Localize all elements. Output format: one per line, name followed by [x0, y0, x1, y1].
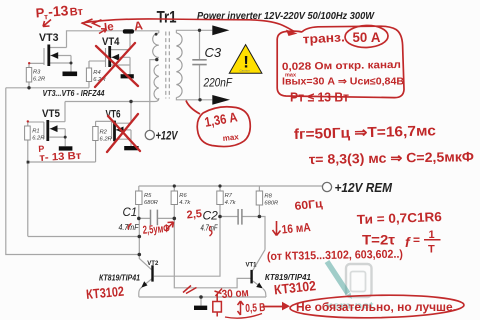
svg-text:VT6: VT6	[106, 108, 121, 120]
capacitor C2 (leads and plates)	[220, 209, 265, 250]
svg-text:C2: C2	[203, 209, 219, 223]
svg-text:4.7k: 4.7k	[179, 200, 191, 206]
svg-text:2,5: 2,5	[186, 208, 202, 222]
wire VT1 emitter to bottom rail	[253, 281, 266, 297]
transformer Tr1 secondary winding	[176, 33, 182, 98]
svg-text:КТ819/TIP41: КТ819/TIP41	[99, 273, 140, 282]
wire VT2 collector from C1 node	[139, 218, 151, 269]
node C1 right	[173, 217, 177, 221]
resistor R4 body	[86, 68, 91, 82]
red strike mark before 30 Om	[215, 289, 223, 297]
svg-text:16 мА: 16 мА	[281, 220, 311, 236]
svg-text:max: max	[285, 73, 297, 79]
wire gate bus R1-R2	[28, 161, 96, 163]
red blob 1.36A	[197, 107, 250, 147]
red arrow before Ie	[99, 29, 107, 34]
node h1 on VT2 collector	[138, 235, 142, 239]
capacitor C1 (leads and plates)	[139, 210, 175, 226]
red chevrons at left end of underline	[83, 19, 102, 28]
transistor VT6 channel bar	[113, 121, 116, 142]
red connector to blob	[186, 101, 200, 115]
wire VT1 collector from C2 node	[253, 250, 265, 271]
node C3 bottom	[198, 98, 201, 101]
wire left bus down to multivibrator	[6, 88, 140, 255]
svg-text:R1: R1	[32, 129, 39, 135]
svg-text:R5: R5	[144, 193, 152, 199]
svg-text:50 А: 50 А	[353, 29, 381, 45]
transistor VT6 (wires)	[96, 102, 131, 163]
node R6 top	[173, 184, 176, 187]
wire VT2 emitter to bottom rail	[139, 279, 152, 297]
red junction dot R1 gate	[27, 120, 29, 122]
svg-text:C1: C1	[123, 207, 138, 219]
resistor R5 leads	[138, 186, 140, 218]
svg-text:транз.: транз.	[302, 30, 345, 46]
node blob on top rail at VT4 drain	[123, 29, 134, 33]
transistor VT6 body-diode arrow	[116, 127, 124, 134]
red arrow into cloud	[263, 306, 283, 308]
red underline long stroke with right arrow	[82, 19, 295, 32]
svg-text:+12V: +12V	[156, 130, 179, 142]
output arrow bottom	[212, 95, 230, 105]
ground symbol bottom rail	[194, 306, 207, 310]
svg-text:=: =	[413, 233, 420, 247]
svg-text:VT1: VT1	[246, 262, 258, 268]
red slash at C1 value	[128, 224, 131, 230]
node ground on bottom rail	[199, 295, 203, 299]
wire top supply rail of multivibrator	[139, 185, 323, 187]
svg-text:Iвых=30 А ⇒ Uси≤0,84В: Iвых=30 А ⇒ Uси≤0,84В	[282, 77, 404, 88]
red cloud not necessary	[290, 294, 464, 319]
capacitor C3 (leads and plates)	[192, 30, 206, 100]
resistor R6 leads	[173, 186, 175, 218]
wire secondary top output	[176, 30, 212, 33]
transistor VT4 (wires)	[89, 31, 130, 88]
svg-text:R6: R6	[179, 193, 187, 199]
svg-text:0,5 В: 0,5 В	[245, 302, 266, 315]
watermark square icon	[346, 264, 372, 297]
red scribble left of ground	[183, 286, 197, 294]
svg-text:R7: R7	[225, 193, 233, 199]
transistor VT3 body-diode arrow	[51, 52, 59, 59]
svg-text:6.2R: 6.2R	[32, 135, 45, 141]
svg-text:(от КТ315...3102, 603,602..): (от КТ315...3102, 603,602..)	[267, 249, 403, 263]
transistor VT2 base bar	[151, 265, 153, 281]
wire secondary bottom output	[176, 98, 212, 100]
wire gate bus under VT3/VT4	[6, 87, 89, 89]
terminal +12V circle	[145, 130, 154, 139]
svg-text:R8: R8	[264, 194, 272, 200]
svg-text:Caution: Caution	[240, 69, 251, 73]
resistor R7 body	[217, 191, 223, 205]
wire center tap to +12V terminal	[150, 60, 157, 131]
watermark pencil	[327, 262, 352, 300]
ground bar VT3 source	[63, 72, 78, 77]
wire ground stub	[200, 297, 202, 306]
svg-text:VT5: VT5	[42, 108, 60, 120]
node R3 bottom on gate bus	[27, 86, 30, 89]
svg-text:VT3...VT6 - IRFZ44: VT3...VT6 - IRFZ44	[43, 89, 105, 98]
node h2 on VT2 collector	[138, 253, 142, 257]
svg-text:τ= 8,3(3) мс ⇒ С=2,5мкФ: τ= 8,3(3) мс ⇒ С=2,5мкФ	[309, 149, 475, 167]
red cross over VT4	[95, 43, 138, 87]
svg-text:C3: C3	[205, 45, 222, 60]
svg-text:R4: R4	[93, 70, 100, 76]
transistor VT1 base bar	[250, 270, 252, 284]
node R1 on gate bus2	[27, 161, 30, 164]
red slash at C2 value	[209, 226, 211, 236]
svg-text:6.2R: 6.2R	[100, 136, 113, 142]
ground bar VT6 source	[124, 146, 138, 150]
svg-text:VT3: VT3	[39, 32, 59, 44]
svg-text:680R: 680R	[264, 200, 279, 206]
svg-text:max: max	[222, 132, 239, 143]
svg-text:R2: R2	[100, 130, 108, 136]
svg-text:VT2: VT2	[147, 261, 159, 267]
output arrow top	[212, 25, 229, 35]
terminal +12V REM circle	[322, 182, 331, 191]
resistor R7 leads	[219, 186, 221, 217]
svg-text:Т=2τ: Т=2τ	[362, 233, 395, 248]
red updown arrow at 0.5V	[238, 301, 244, 315]
red box around transistor data	[277, 26, 404, 97]
red arrow at 2.5uF	[166, 222, 174, 230]
node VT6 drain on bus	[129, 100, 132, 103]
node VT5 source junction	[64, 136, 67, 139]
node C3 top	[198, 29, 201, 32]
svg-text:Вт: Вт	[69, 6, 84, 19]
node VT3 source junction	[70, 62, 73, 65]
transistor VT5 (wires)	[28, 102, 65, 237]
svg-text:Tr1: Tr1	[157, 7, 177, 26]
svg-text:0,028 Ом откр. канал: 0,028 Ом откр. канал	[282, 59, 401, 73]
svg-text:-13: -13	[48, 2, 70, 19]
transistor VT4 channel bar	[108, 46, 111, 67]
red note Pt-13W lower (VT5)	[38, 142, 81, 164]
red cross over VT6	[107, 114, 140, 152]
red down arrow 16mA	[273, 221, 281, 236]
node C2 left	[218, 215, 222, 219]
svg-text:4.7mF: 4.7mF	[119, 223, 140, 232]
svg-text:Т: Т	[428, 244, 435, 256]
svg-text:1: 1	[429, 229, 435, 241]
ground bar VT4 source	[121, 74, 134, 78]
warning triangle caution	[229, 45, 262, 74]
red oval 50A	[345, 25, 389, 48]
node transformer center tap	[155, 58, 158, 61]
svg-text:VT4: VT4	[102, 36, 120, 48]
svg-text:Pт ≤ 13 Вт: Pт ≤ 13 Вт	[290, 90, 349, 105]
transistor VT2 emitter arrow	[141, 281, 147, 288]
red wavy connector under 0.5V	[225, 314, 262, 319]
node C1 left	[137, 217, 141, 221]
wire gate-bus drop to VT2 collector (h1)	[28, 236, 139, 238]
resistor R2 body	[93, 127, 98, 141]
node C2 right	[258, 215, 262, 219]
svg-text:т- 13 Вт: т- 13 Вт	[39, 150, 82, 164]
red resistor doodle at ground	[213, 294, 222, 317]
red junction dot R3 gate	[28, 62, 30, 64]
svg-text:680R: 680R	[144, 200, 159, 206]
transistor VT3 channel bar	[47, 45, 50, 67]
resistor R6 body	[171, 191, 177, 205]
red note Pt-13W top-left	[35, 1, 84, 22]
svg-text:6.2R: 6.2R	[33, 76, 46, 82]
svg-text:R3: R3	[33, 70, 41, 76]
wire bottom rail	[139, 296, 266, 298]
node transformer polarity dot	[155, 33, 158, 36]
transistor VT1 emitter arrow	[256, 283, 263, 289]
transformer Tr1 core	[166, 32, 170, 99]
node R7 top	[218, 184, 221, 187]
transformer Tr1 primary winding	[153, 33, 159, 100]
svg-text:30 ом: 30 ом	[221, 287, 249, 301]
resistor R5 body	[136, 191, 142, 205]
svg-text:220nF: 220nF	[203, 78, 233, 90]
red formula f=1/T fraction	[405, 229, 441, 256]
transistor VT3 (wires: source/arrow/gate)	[29, 48, 71, 88]
resistor R1 body	[25, 126, 31, 140]
ground bar VT5 source	[59, 146, 73, 150]
transistor VT5 channel bar	[46, 120, 49, 141]
resistor R3 body	[26, 68, 31, 83]
svg-text:4.7k: 4.7k	[225, 200, 237, 206]
resistor R8 leads	[258, 186, 260, 217]
resistor R8 body	[256, 191, 262, 205]
wire bus primary-bottom to VT5/VT6 drains	[65, 98, 159, 102]
transistor VT5 body-diode arrow	[50, 125, 58, 132]
wire VT2 base from C2 node	[154, 217, 220, 277]
wire VT1 base route from C1/R6 node	[174, 218, 250, 287]
wire top rail (drains VT3/VT4 to primary top)	[67, 31, 159, 48]
svg-text:+12V REM: +12V REM	[335, 181, 393, 195]
svg-text:Ти = 0,7С1R6: Ти = 0,7С1R6	[357, 209, 442, 227]
red arrow under Pt-13W	[43, 20, 51, 27]
svg-text:Не обязательно, но лучше.: Не обязательно, но лучше.	[296, 302, 456, 314]
transistor VT4 body-diode arrow	[112, 54, 120, 61]
